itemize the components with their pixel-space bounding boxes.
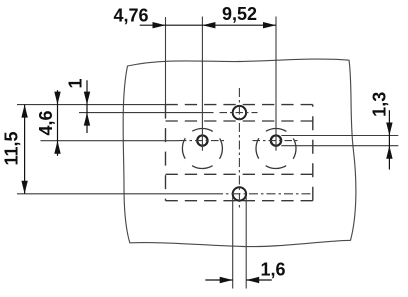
- svg-text:1,3: 1,3: [370, 92, 390, 117]
- svg-text:1: 1: [65, 78, 85, 88]
- svg-text:11,5: 11,5: [2, 131, 22, 165]
- svg-text:1,6: 1,6: [261, 260, 286, 280]
- svg-text:9,52: 9,52: [222, 4, 257, 24]
- svg-text:4,6: 4,6: [36, 110, 56, 135]
- svg-text:4,76: 4,76: [114, 5, 149, 25]
